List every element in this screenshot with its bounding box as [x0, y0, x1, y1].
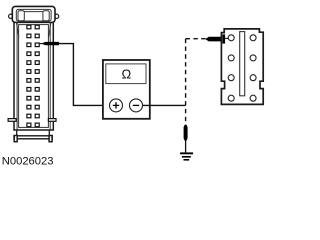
- connector C1 pin box: [19, 25, 49, 128]
- ohmmeter plus terminal: [110, 99, 123, 112]
- connector C1 pin grid 12x2: [27, 25, 39, 127]
- wire ohmmeter minus to dashed node: [143, 104, 186, 106]
- wire C1 to ohmmeter plus: [59, 44, 110, 106]
- connector C1 left taper line: [16, 23, 18, 38]
- connector C1 left ear: [9, 14, 13, 18]
- connector C1 cap left latch: [18, 11, 24, 21]
- connector C2 outline: [221, 29, 263, 105]
- terminal bar inside C2 wall: [222, 34, 225, 43]
- ground terminal blob: [184, 125, 188, 141]
- ground lead: [185, 141, 187, 153]
- connector C1 bottom bracket right wall: [48, 130, 50, 136]
- connector C1 left foot: [14, 136, 17, 142]
- probe terminal arrow at C2: [205, 37, 221, 42]
- ohmmeter minus terminal: [130, 99, 143, 112]
- connector C1 top cap: [12, 6, 55, 22]
- connector C1 cap right latch: [43, 11, 49, 21]
- ohmmeter display: [106, 64, 146, 84]
- connector C1 right side rod: [48, 119, 56, 122]
- minus sign: [133, 104, 139, 106]
- connector C1 right inner wall: [49, 22, 51, 130]
- plus sign: [113, 104, 119, 106]
- lead to C2 pin 1: [225, 37, 228, 39]
- probe lead into C1 pin (row3 col2): [39, 43, 42, 45]
- connector C1 body: [14, 22, 53, 130]
- connector C1 bottom bar: [14, 136, 52, 139]
- connector C2 pin circles: [228, 35, 256, 101]
- connector C1 cap inner frame: [16, 9, 51, 21]
- probe terminal arrow at C1: [41, 42, 59, 45]
- connector C1 right foot: [49, 136, 52, 142]
- svg-text:Ω: Ω: [121, 67, 131, 82]
- ground symbol bar 1: [180, 152, 193, 154]
- svg-text:N0026023: N0026023: [2, 155, 54, 167]
- dashed wire horizontal: [186, 38, 206, 40]
- connector C1 left inner wall: [16, 22, 18, 130]
- ground symbol bar 2: [182, 156, 191, 158]
- connector C1 bottom bracket left wall: [16, 130, 18, 136]
- connector C1 left side rod: [8, 119, 16, 122]
- connector C1 cap middle line: [24, 11, 43, 13]
- connector C2 center slot: [240, 32, 245, 96]
- connector C1 right taper line: [49, 23, 51, 38]
- ohmmeter U1 body: [103, 60, 150, 119]
- dashed wire vertical: [185, 39, 187, 123]
- connector C1 right ear: [54, 14, 58, 18]
- ground symbol bar 3: [184, 159, 190, 161]
